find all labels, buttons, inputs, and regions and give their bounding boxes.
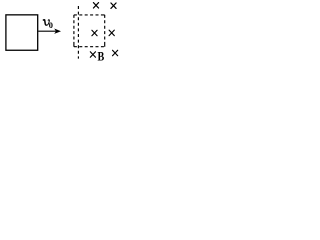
- svg-text:B: B: [98, 49, 105, 63]
- background: [0, 0, 128, 70]
- dashed square (loop position in field): [74, 15, 105, 47]
- velocity arrow shaft: [38, 30, 58, 32]
- X field marks (B into page): [90, 3, 117, 58]
- x mark 2: [111, 3, 116, 9]
- x mark 3: [92, 30, 97, 36]
- x mark 4: [109, 30, 114, 36]
- svg-text:0: 0: [49, 21, 53, 30]
- label v0: [43, 20, 49, 26]
- field boundary dashed line: [77, 6, 79, 59]
- x mark 5: [90, 52, 95, 58]
- conducting square loop: [6, 15, 38, 50]
- velocity arrowhead: [54, 29, 61, 34]
- x mark 6: [113, 50, 118, 56]
- x mark 1: [93, 3, 98, 9]
